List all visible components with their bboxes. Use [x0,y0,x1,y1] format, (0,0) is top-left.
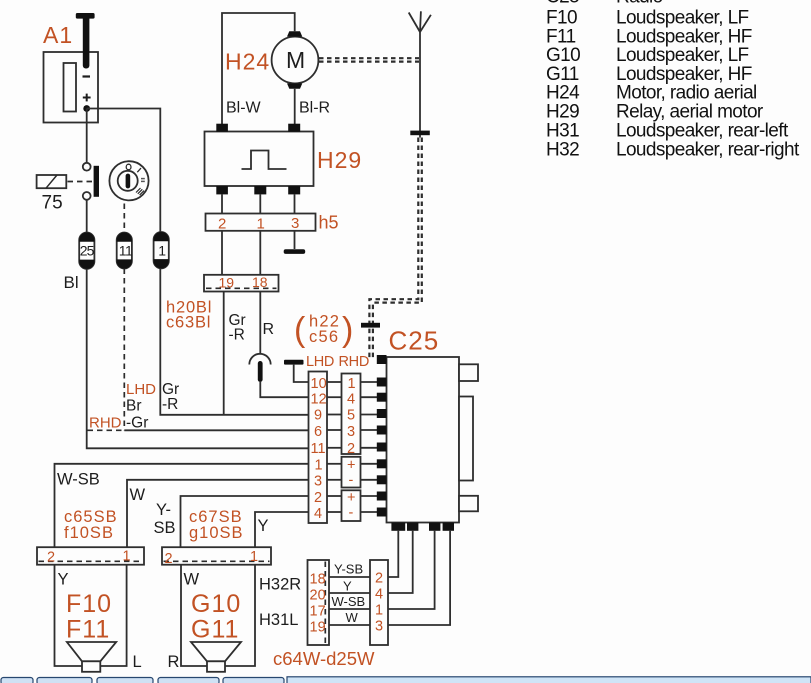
motor H24 [272,31,319,89]
battery minus sign [83,75,91,77]
wire C25 pin1 to rear 2 [388,531,398,577]
wire Y-SB speaker feed row2 [181,496,309,547]
label c67SB g10SB [189,508,244,542]
svg-text:h5: h5 [319,213,339,233]
C25 right tab top [459,364,478,381]
legend row G10 [546,45,749,66]
wire rear row 19-3 [329,624,370,626]
wire 18 down to coax [259,292,261,355]
svg-text:LHD: LHD [126,381,156,398]
svg-text:10: 10 [311,376,327,392]
connector h5 [206,214,316,233]
switch contact upper [83,163,91,171]
svg-text:W-SB: W-SB [332,594,366,609]
legend row H32 [546,139,800,160]
C25 bottom pin 2 [407,523,418,531]
svg-text:6: 6 [314,424,322,440]
svg-text:W: W [130,486,146,504]
node battery plus junction [83,105,90,112]
label Y right [258,517,269,535]
connector rear speakers right [370,560,388,645]
C25 pin row11 [377,443,387,452]
svg-text:H29: H29 [317,147,362,173]
C25 pin row9 [377,409,387,418]
label Bl-W [226,100,262,117]
svg-text:3: 3 [314,474,322,490]
label Br -R [126,396,178,415]
svg-text:11: 11 [119,243,133,259]
svg-text:2: 2 [47,550,55,566]
wire 19 down to pin9 junction [223,292,225,415]
svg-text:19: 19 [219,275,235,291]
svg-text:(: ( [294,311,306,349]
label RHD -Gr [89,415,148,432]
aerial trim bar [410,131,430,136]
ignition position mark III [136,188,144,195]
svg-text:C25: C25 [389,326,440,356]
svg-text:Y: Y [343,579,352,594]
svg-text:G10: G10 [546,45,580,66]
label G10 G11 [191,590,241,644]
battery A1 box [44,52,99,123]
svg-text:Y: Y [58,571,69,589]
legend partial first row C25 Radio [546,0,663,8]
svg-text:Loudspeaker, rear-left: Loudspeaker, rear-left [616,120,789,141]
wire RHD to LHD pin6 [124,429,308,431]
taskbar strip [1,677,811,683]
fuse 25 [79,233,94,269]
motor H24 label [225,49,270,75]
svg-text:H24: H24 [225,49,270,75]
svg-text:4: 4 [314,506,322,522]
ground under h5 pin3 [284,231,306,254]
svg-text:Y-SB: Y-SB [334,562,363,577]
svg-text:H32R: H32R [259,576,301,594]
svg-text:-R: -R [229,327,245,344]
H29 pin top-right [288,124,300,132]
svg-text:2: 2 [375,571,383,587]
svg-text:H31: H31 [546,120,579,141]
svg-text:H31L: H31L [259,611,298,629]
svg-text:A1: A1 [43,22,73,48]
wire rear row 17-1 [329,608,370,610]
wire coax to LHD pin12 [260,382,308,397]
C25 pin row6 [377,426,387,435]
C25 pin row1 [377,459,387,468]
legend row H31 [546,120,789,141]
radio C25 box [387,357,460,523]
svg-text:H32: H32 [546,139,579,160]
svg-text:-: - [349,473,354,489]
ignition position mark 0 [126,164,131,170]
relay coil 75 [37,175,67,188]
loudspeaker F cone [67,642,116,672]
svg-text:G10: G10 [191,590,241,618]
svg-text:2: 2 [347,441,355,457]
label (h22 c56) [294,311,353,349]
wire row6 LHD-RHD [327,429,378,431]
connector RHD column upper [342,374,361,457]
C25 pin row10 [377,378,387,387]
label R [168,653,180,671]
wire dashed RHD jumper [88,429,125,431]
coax screen symbol [249,354,270,382]
svg-text:C25: C25 [546,0,579,8]
label LHD RHD columns [306,354,369,370]
svg-text:+: + [347,490,355,506]
svg-text:1: 1 [348,376,356,392]
svg-text:L: L [133,653,142,671]
C25 bottom pin 1 [391,523,405,531]
svg-text:Br: Br [126,398,142,415]
ignition position mark II [141,179,145,182]
svg-text:1: 1 [123,549,131,565]
connector LHD column [309,372,328,524]
svg-text:LHD: LHD [306,354,334,370]
svg-text:20: 20 [310,588,326,604]
svg-text:Bl-W: Bl-W [226,100,262,117]
svg-text:-: - [349,505,354,521]
wire row10 LHD-RHD [327,381,378,383]
wire row1 LHD-RHD [327,463,378,465]
battery A1 label [43,22,73,48]
loudspeaker G10 G11 box [181,565,255,666]
svg-text:2: 2 [165,551,173,567]
C25 pin row4 [377,508,387,517]
label Y-SB [154,501,176,537]
svg-text:c56: c56 [309,328,339,346]
wire H29 to h5 pin3 [294,194,296,213]
connector h20Bl c63Bl pins 19 18 [204,274,279,292]
terminal bar LHD aerial [284,360,304,365]
svg-text:2: 2 [314,490,322,506]
label W-SB rear [332,594,366,609]
H29 pin bottom-left [216,186,228,194]
C25 right connector mid [459,397,473,481]
wire row3 LHD-RHD [327,479,378,481]
label W [130,486,146,504]
wire W speaker feed row3 [127,480,309,547]
wire battery+ to fuse 1 feed [87,109,161,234]
label 75 [42,193,63,214]
svg-text:Bl-R: Bl-R [299,100,330,117]
ignition position mark I [137,168,141,172]
label H29 [317,147,362,173]
label LHD Gr [126,381,179,398]
wire row4 LHD-RHD [327,511,378,513]
svg-text:): ) [342,311,353,349]
wire Y speaker feed row4 [255,512,309,547]
svg-text:SB: SB [154,519,176,537]
connector rear speakers left H32R H31L [308,560,330,645]
label Bl-R [299,100,330,117]
aerial coupling double dashed link [319,58,419,61]
svg-text:f10SB: f10SB [64,524,114,542]
svg-text:Loudspeaker, rear-right: Loudspeaker, rear-right [616,139,800,160]
connector RHD column lower [342,490,361,521]
fuse 1 [154,232,169,268]
connector front speakers left [37,547,144,565]
svg-text:3: 3 [347,424,355,440]
wire battery+ down to switch [86,109,88,163]
battery plus sign [83,94,91,102]
svg-text:19: 19 [310,620,326,636]
svg-text:M: M [286,47,305,73]
label W under G pin2 [184,571,200,589]
svg-text:5: 5 [347,408,355,424]
label H31L [259,611,298,629]
legend row F10 [546,8,749,29]
svg-text:+: + [347,458,355,474]
label Bl [64,273,79,292]
wire h5 pin2 to 19 [221,231,223,275]
battery earth terminal bar [76,13,95,69]
svg-text:F11: F11 [66,616,110,644]
label Y-SB rear [334,562,363,577]
loudspeaker G cone [191,642,241,672]
svg-text:11: 11 [311,441,326,457]
switch actuator bar [94,166,99,197]
label Y under F pin2 [58,571,69,589]
C25 pin row2 [377,492,387,501]
label L [133,653,142,671]
svg-text:Loudspeaker, LF: Loudspeaker, LF [616,45,749,66]
H29 pin top-left [216,124,228,132]
connector front speakers right [162,547,271,567]
wire C25 pin4 to rear 3 [388,531,450,625]
wire H29 to h5 pin2 [221,194,223,213]
svg-text:12: 12 [311,392,327,408]
label h5 [319,213,339,233]
label R [263,321,275,338]
loudspeaker F10 F11 box [55,565,127,666]
label F10 F11 [66,590,112,644]
wire H29 to h5 pin1 [259,194,261,213]
legend row H24 [546,83,757,104]
svg-text:17: 17 [310,604,326,620]
svg-text:18: 18 [252,274,268,290]
label W-SB [57,471,100,489]
wire motor bottom Bl-R [294,89,296,125]
wire dashed ignition to fuse 11 [123,204,125,234]
connector RHD column mid [342,457,361,489]
svg-text:W-SB: W-SB [57,471,100,489]
label H32R [259,576,301,594]
ignition switch body [109,161,148,200]
C25 right tab bottom [459,496,478,512]
wire rear row 18-2 [329,576,370,578]
C25 bottom pin 4 [443,523,454,531]
svg-text:c63Bl: c63Bl [166,314,211,332]
svg-text:1: 1 [158,243,166,259]
C25 bottom pin 3 [429,523,440,531]
svg-text:1: 1 [250,549,258,565]
svg-text:-R: -R [162,396,178,413]
svg-text:1: 1 [375,603,383,619]
svg-text:W: W [346,610,359,625]
wire rear row 20-4 [329,592,370,594]
aerial mast [409,11,431,137]
svg-text:-Gr: -Gr [126,415,148,432]
wire Bl fuse25 to LHD pin11 [87,269,309,448]
wire dashed fuse 11 down RHD variant [123,269,125,431]
svg-text:F10: F10 [66,590,112,618]
C25 pin row3 [377,475,387,484]
svg-text:Y-: Y- [156,501,171,519]
wire switch to fuse 25 [86,200,88,233]
svg-text:9: 9 [314,408,322,424]
svg-text:RHD: RHD [89,415,122,432]
aerial screen ground bar [361,323,380,328]
wire row11 LHD-RHD [327,447,378,449]
svg-text:W: W [184,571,200,589]
svg-text:3: 3 [291,215,299,232]
svg-text:R: R [168,653,180,671]
label C25 [389,326,440,356]
legend row H29 [546,102,764,123]
svg-text:18: 18 [310,572,326,588]
svg-text:g10SB: g10SB [189,524,244,542]
svg-text:R: R [263,321,275,338]
wire dashed relay to switch [68,181,93,183]
switch contact lower [83,192,91,200]
svg-text:25: 25 [80,243,95,259]
wire C25 pin3 to rear 1 [388,531,435,609]
legend row G11 [546,64,752,85]
svg-text:Radio: Radio [616,0,663,8]
wire dashed aerial screen to C25 [369,138,421,358]
label c65SB f10SB [64,508,118,542]
H29 pin bottom-mid [254,186,266,194]
svg-text:RHD: RHD [339,354,370,370]
svg-text:Y: Y [258,517,269,535]
label W rear [346,610,359,625]
C25 pin row12 [377,393,387,402]
wire W-SB speaker feed row1 [55,464,309,547]
wire h5 pin1 to 18 [259,231,261,275]
svg-text:1: 1 [257,216,265,233]
label c64W-d25W [273,648,375,669]
label Gr -R vertical wire [229,312,246,344]
wire row12 LHD-RHD [327,396,378,398]
svg-text:75: 75 [42,193,63,214]
svg-text:2: 2 [218,216,226,233]
svg-text:1: 1 [315,458,323,474]
svg-text:Bl: Bl [64,273,79,292]
label h20Bl c63Bl [166,299,212,332]
C25 pin aerial [377,355,387,364]
relay H29 box [205,132,314,187]
wire row2 LHD-RHD [327,495,378,497]
wire row9 LHD-RHD [327,414,378,416]
svg-text:Motor, radio aerial: Motor, radio aerial [616,83,757,104]
wire fuse 1 to LHD pin9 [160,269,308,415]
svg-text:c64W-d25W: c64W-d25W [273,648,375,669]
label Y rear [343,579,352,594]
svg-text:3: 3 [375,619,383,635]
wire motor top to H29 Bl-W [222,13,295,124]
fuse 11 [117,233,133,269]
H29 pin bottom-right [288,186,300,194]
svg-text:4: 4 [347,392,355,408]
legend row F11 [546,26,752,47]
wire C25 pin2 to rear 4 [388,531,413,593]
svg-text:H24: H24 [546,83,580,104]
svg-text:G11: G11 [191,616,239,644]
wire terminal bar to LHD pin10 [294,365,309,382]
svg-text:4: 4 [375,587,383,603]
